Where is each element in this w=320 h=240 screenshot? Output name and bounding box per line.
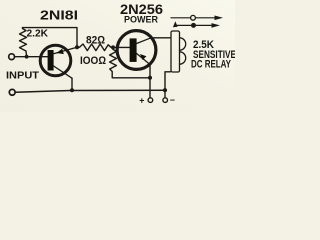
wire Q2 emitter down to plus terminal (149, 65, 151, 98)
battery plus terminal (148, 98, 153, 103)
transistor Q1 2N181 (40, 45, 77, 78)
svg-text:2.2K: 2.2K (27, 27, 49, 39)
relay contact lower (173, 21, 220, 28)
relay contact upper (171, 15, 223, 20)
wire Q2 collector to relay coil (151, 37, 171, 39)
relay coil (171, 31, 186, 72)
wire to Q2 base (113, 46, 130, 48)
transistor Q2 2N256 (117, 31, 156, 70)
resistor R1 2.2K (20, 28, 27, 57)
junction dot emitter/82 ohm (75, 45, 79, 49)
svg-text:INPUT: INPUT (6, 70, 39, 81)
bottom left terminal (9, 89, 15, 95)
resistor R3 100 ohm (110, 47, 150, 77)
wire Q1 collector down to rail (71, 78, 73, 90)
junction dot 82/100/Q2 base (111, 45, 115, 49)
svg-text:POWER: POWER (124, 15, 158, 25)
input terminal (9, 54, 15, 60)
svg-text:IOOΩ: IOOΩ (80, 55, 106, 67)
svg-text:+: + (139, 95, 144, 105)
junction dot 100 ohm/Q2 emitter (148, 76, 152, 80)
paper background (0, 0, 235, 112)
svg-text:2NI8I: 2NI8I (40, 8, 78, 22)
resistor R2 82 ohm (77, 44, 113, 51)
battery minus terminal (163, 98, 168, 103)
svg-text:−: − (170, 95, 175, 105)
svg-text:82Ω: 82Ω (86, 34, 106, 46)
wire input to Q1 base (15, 56, 48, 58)
junction dot Q1 collector/rail (70, 88, 74, 92)
bottom rail wire (15, 90, 165, 92)
wire 2.2K top to emitter junction (23, 28, 78, 46)
wire coil bottom to minus terminal (165, 72, 171, 97)
junction dot base/2.2K (25, 55, 29, 59)
svg-text:DC RELAY: DC RELAY (191, 59, 231, 71)
junction dot rail end (163, 88, 167, 92)
